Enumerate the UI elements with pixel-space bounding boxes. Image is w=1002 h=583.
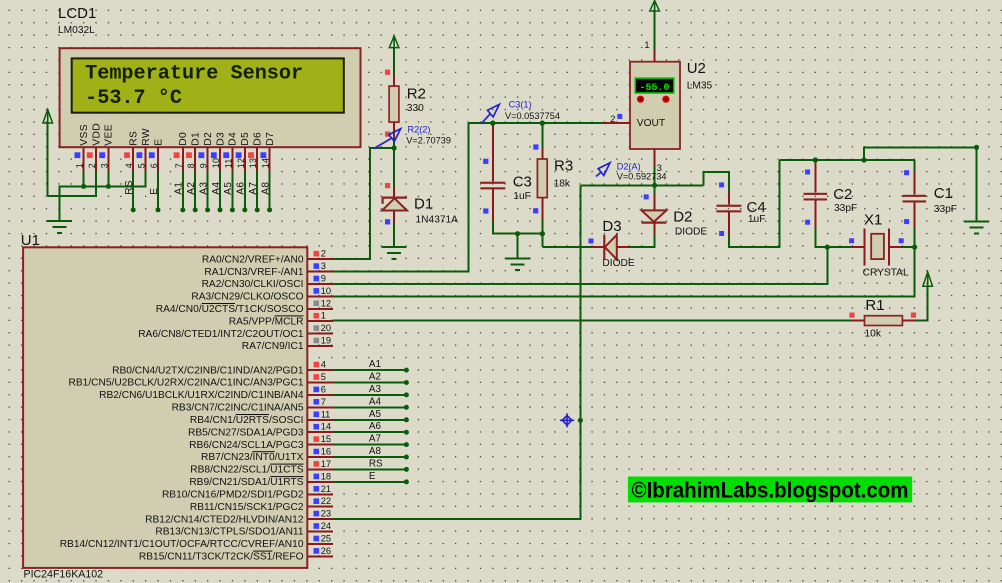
voltage probe R2(2) xyxy=(374,138,392,149)
U2 knob right xyxy=(662,96,669,103)
svg-text:Temperature Sensor: Temperature Sensor xyxy=(85,63,303,86)
svg-text:D4: D4 xyxy=(228,132,239,146)
wire U1 net A7 xyxy=(333,444,407,446)
svg-text:13: 13 xyxy=(248,158,258,168)
wire VDD to LCD pin 2 xyxy=(48,172,96,196)
svg-text:D1: D1 xyxy=(191,132,202,146)
wire LCD net A4 xyxy=(219,172,221,210)
svg-text:3: 3 xyxy=(99,163,109,168)
svg-text:-55.0: -55.0 xyxy=(639,83,669,94)
svg-text:15: 15 xyxy=(321,434,331,444)
svg-text:25: 25 xyxy=(321,534,331,544)
svg-text:6: 6 xyxy=(321,384,326,394)
svg-text:©IbrahimLabs.blogspot.com: ©IbrahimLabs.blogspot.com xyxy=(632,477,909,502)
svg-text:18: 18 xyxy=(321,471,331,481)
svg-text:E: E xyxy=(149,188,160,195)
wire LCD net A8 xyxy=(269,172,271,210)
voltage probe C3(1) xyxy=(482,114,491,124)
svg-text:1: 1 xyxy=(321,311,326,321)
svg-text:RW: RW xyxy=(141,128,152,146)
LCD screen xyxy=(72,58,344,112)
wire LCD net A3 xyxy=(207,172,209,210)
svg-text:RB1/CN5/U2BCLK/U2RX/C2INA/C1IN: RB1/CN5/U2BCLK/U2RX/C2INA/C1INC/AN3/PGC1 xyxy=(69,378,304,389)
wire C3 bottom xyxy=(493,221,543,234)
svg-text:26: 26 xyxy=(321,546,331,556)
svg-text:-53.7 °C: -53.7 °C xyxy=(85,87,182,110)
svg-text:V=0.592734: V=0.592734 xyxy=(617,171,667,181)
wire rail to ground xyxy=(864,147,977,221)
microcontroller U1 body xyxy=(23,247,307,568)
svg-text:11: 11 xyxy=(223,158,233,168)
svg-text:1: 1 xyxy=(75,163,85,168)
svg-text:4: 4 xyxy=(321,360,326,370)
wire U1 net A4 xyxy=(333,406,407,408)
svg-text:RA0/CN2/VREF+/AN0: RA0/CN2/VREF+/AN0 xyxy=(202,254,304,265)
svg-text:10: 10 xyxy=(321,286,331,296)
svg-text:8: 8 xyxy=(186,163,196,168)
svg-text:RS: RS xyxy=(129,131,140,146)
wire U1 pin1 MCLR to R1 xyxy=(333,320,852,322)
svg-text:LCD1: LCD1 xyxy=(58,5,96,22)
svg-text:RA5/VPP/MCLR: RA5/VPP/MCLR xyxy=(229,316,304,327)
svg-text:A4: A4 xyxy=(211,182,222,195)
svg-text:CRYSTAL: CRYSTAL xyxy=(863,267,909,278)
wire U1 net A1 xyxy=(333,369,407,371)
wire U1 net RS xyxy=(333,468,407,470)
svg-text:5: 5 xyxy=(321,372,326,382)
junction R3 top xyxy=(540,121,545,126)
wire U1 pin10 to crystal right xyxy=(333,247,915,296)
wire U1 net A5 xyxy=(333,419,407,421)
diode D3 xyxy=(617,246,630,248)
svg-text:1N4371A: 1N4371A xyxy=(416,215,459,226)
wire net to C4 top xyxy=(704,172,729,192)
resistor R3 xyxy=(541,123,543,147)
wire LCD net E xyxy=(157,172,159,210)
temperature sensor U2 body xyxy=(630,62,680,149)
svg-text:RB12/CN14/CTED2/HLVDIN/AN12: RB12/CN14/CTED2/HLVDIN/AN12 xyxy=(145,514,304,525)
svg-text:A2: A2 xyxy=(369,372,381,383)
wire U1 pin23 to D2 anode net xyxy=(333,185,581,519)
svg-text:24: 24 xyxy=(321,521,331,531)
svg-text:1uF: 1uF xyxy=(748,214,766,225)
svg-text:RB15/CN11/T3CK/T2CK/SS1/REFO: RB15/CN11/T3CK/T2CK/SS1/REFO xyxy=(139,552,304,563)
svg-text:RB14/CN12/INT1/C1OUT/OCFA/RTCC: RB14/CN12/INT1/C1OUT/OCFA/RTCC/CVREF/AN1… xyxy=(60,539,304,550)
svg-text:VEE: VEE xyxy=(104,124,115,146)
capacitor C1 xyxy=(913,160,915,171)
crystal X1 xyxy=(827,246,852,248)
svg-text:RB11/CN15/SCK1/PGC2: RB11/CN15/SCK1/PGC2 xyxy=(190,502,304,513)
svg-text:11: 11 xyxy=(321,409,331,419)
svg-text:A5: A5 xyxy=(223,182,234,195)
diode D2 xyxy=(654,185,656,193)
wire D3 cathode to R3/C3 net xyxy=(542,246,591,248)
wire ground rail xyxy=(779,159,914,161)
svg-text:12: 12 xyxy=(236,158,246,168)
wire D2 anode net xyxy=(580,184,703,186)
svg-text:9: 9 xyxy=(321,274,326,284)
svg-text:D3: D3 xyxy=(602,218,621,235)
svg-text:22: 22 xyxy=(321,496,331,506)
U2 knob left xyxy=(637,96,644,103)
wire LCD net A1 xyxy=(182,172,184,210)
wire U1 net A3 xyxy=(333,394,407,396)
svg-text:RA2/CN30/CLKI/OSCI: RA2/CN30/CLKI/OSCI xyxy=(202,279,304,290)
svg-text:330: 330 xyxy=(407,103,424,114)
svg-text:D2: D2 xyxy=(203,132,214,146)
wire LCD net A6 xyxy=(244,172,246,210)
U2 pin1 stub xyxy=(654,49,656,61)
wire U1 pin9 to crystal left xyxy=(333,247,827,284)
origin marker xyxy=(560,413,574,427)
svg-text:R2: R2 xyxy=(407,86,426,103)
capacitor C3 xyxy=(492,123,494,181)
svg-text:X1: X1 xyxy=(864,211,882,228)
svg-text:DIODE: DIODE xyxy=(602,258,634,269)
svg-text:A8: A8 xyxy=(369,446,382,457)
wire LCD net A7 xyxy=(256,172,258,210)
wire D1 to ground xyxy=(393,223,395,247)
svg-text:A8: A8 xyxy=(260,182,271,195)
wire LCD pin3 to rail xyxy=(107,172,109,186)
svg-text:7: 7 xyxy=(321,397,326,407)
svg-text:12: 12 xyxy=(321,298,331,308)
svg-text:V=2.70739: V=2.70739 xyxy=(406,135,451,145)
svg-text:A7: A7 xyxy=(369,434,381,445)
svg-text:2: 2 xyxy=(87,163,97,168)
junction R3 bottom xyxy=(540,231,545,236)
svg-text:RB8/CN22/SCL1/U1CTS: RB8/CN22/SCL1/U1CTS xyxy=(190,465,303,476)
svg-text:DIODE: DIODE xyxy=(675,226,707,237)
svg-text:D6: D6 xyxy=(253,132,264,146)
svg-text:2: 2 xyxy=(610,114,615,124)
svg-text:C1: C1 xyxy=(934,185,953,202)
ground (D1) xyxy=(382,246,407,248)
svg-text:10k: 10k xyxy=(865,328,882,339)
wire R2 to D1 junction xyxy=(393,138,395,148)
wire LCD pin1 to rail xyxy=(83,172,85,186)
power arrow (R2) xyxy=(393,36,395,48)
svg-text:16: 16 xyxy=(321,447,331,457)
wire LCD net A5 xyxy=(231,172,233,210)
wire D2 cathode to D3 xyxy=(630,234,654,247)
svg-text:VSS: VSS xyxy=(79,124,90,146)
U2 pin3 stub xyxy=(654,149,656,167)
svg-text:C2: C2 xyxy=(833,186,852,203)
wire VSS/VEE rail xyxy=(60,172,146,221)
svg-text:RB7/CN23/INT0/U1TX: RB7/CN23/INT0/U1TX xyxy=(201,452,304,463)
svg-text:RB0/CN4/U2TX/C2INB/C1IND/AN2/P: RB0/CN4/U2TX/C2INB/C1IND/AN2/PGD1 xyxy=(112,365,304,376)
svg-text:RA3/CN29/CLKO/OSCO: RA3/CN29/CLKO/OSCO xyxy=(191,292,303,303)
resistor R1 xyxy=(852,320,865,322)
svg-text:A5: A5 xyxy=(369,409,382,420)
wire VOUT rail xyxy=(469,122,604,124)
svg-text:RA7/CN9/IC1: RA7/CN9/IC1 xyxy=(242,341,304,352)
junction C3 top xyxy=(490,121,495,126)
svg-text:A1: A1 xyxy=(369,359,382,370)
svg-text:RA1/CN3/VREF-/AN1: RA1/CN3/VREF-/AN1 xyxy=(204,267,303,278)
svg-text:D2(A): D2(A) xyxy=(617,162,641,172)
svg-text:D0: D0 xyxy=(178,132,189,146)
capacitor C4 xyxy=(728,192,730,204)
svg-text:14: 14 xyxy=(261,158,271,168)
svg-text:RB2/CN6/U1BCLK/U1RX/C2IND/C1IN: RB2/CN6/U1BCLK/U1RX/C2IND/C1INB/AN4 xyxy=(99,390,304,401)
svg-text:7: 7 xyxy=(174,163,184,168)
svg-text:10: 10 xyxy=(211,158,221,168)
svg-text:RB5/CN27/SDA1A/PGD3: RB5/CN27/SDA1A/PGD3 xyxy=(188,427,304,438)
svg-text:RS: RS xyxy=(124,180,135,195)
svg-text:A7: A7 xyxy=(248,182,259,195)
svg-text:RS: RS xyxy=(369,458,383,469)
svg-text:A1: A1 xyxy=(174,182,185,195)
voltage probe D2(A) xyxy=(596,172,601,176)
svg-text:1uF: 1uF xyxy=(513,191,531,202)
wire U1 net A6 xyxy=(333,431,407,433)
svg-text:LM35: LM35 xyxy=(687,81,713,92)
junction on pin23 riser xyxy=(578,418,583,423)
svg-text:A6: A6 xyxy=(236,182,247,195)
svg-text:9: 9 xyxy=(199,163,209,168)
wire U1 pin3 to C3 rail xyxy=(333,123,469,272)
wire U1 net E xyxy=(333,481,407,483)
svg-text:5: 5 xyxy=(137,163,147,168)
svg-text:4: 4 xyxy=(124,163,134,168)
wire U1 pin2 to R2/D1 junction xyxy=(333,148,394,259)
svg-text:A3: A3 xyxy=(369,384,382,395)
ground (C3) xyxy=(517,234,519,259)
svg-text:RB9/CN21/SDA1/U1RTS: RB9/CN21/SDA1/U1RTS xyxy=(189,477,303,488)
svg-text:V=0.0537754: V=0.0537754 xyxy=(505,111,560,121)
power VDD arrow (LCD) xyxy=(47,110,49,124)
watermark xyxy=(628,477,912,503)
svg-text:D2: D2 xyxy=(673,209,692,226)
svg-text:RA4/CN0/U2CTS/T1CK/SOSCO: RA4/CN0/U2CTS/T1CK/SOSCO xyxy=(156,304,304,315)
power arrow (R1) xyxy=(927,272,929,286)
svg-text:D3: D3 xyxy=(215,132,226,146)
svg-text:RB10/CN16/PMD2/SDI1/PGD2: RB10/CN16/PMD2/SDI1/PGD2 xyxy=(162,490,304,501)
svg-text:14: 14 xyxy=(321,422,331,432)
svg-text:RA6/CN8/CTED1/INT2/C2OUT/OC1: RA6/CN8/CTED1/INT2/C2OUT/OC1 xyxy=(138,329,304,340)
capacitor C2 xyxy=(814,160,816,193)
svg-text:2: 2 xyxy=(321,249,326,259)
ground (LCD VSS) xyxy=(47,220,72,222)
svg-text:D5: D5 xyxy=(240,132,251,146)
zener diode D1 xyxy=(393,187,395,197)
wire LCD net RS xyxy=(132,172,134,210)
svg-text:A2: A2 xyxy=(186,182,197,195)
svg-text:A6: A6 xyxy=(369,421,382,432)
svg-text:R2(2): R2(2) xyxy=(408,125,431,135)
svg-text:19: 19 xyxy=(321,336,331,346)
svg-text:21: 21 xyxy=(321,484,331,494)
svg-text:D7: D7 xyxy=(265,132,276,146)
wire U1 net A2 xyxy=(333,382,407,384)
svg-text:A4: A4 xyxy=(369,396,382,407)
svg-text:33pF: 33pF xyxy=(834,203,857,214)
svg-text:VOUT: VOUT xyxy=(637,118,665,129)
junction C2 top xyxy=(813,157,818,162)
power arrow (U2) xyxy=(654,1,656,12)
wire C4 bottom to gnd rail xyxy=(729,160,779,247)
svg-text:D1: D1 xyxy=(414,195,433,212)
wire U1 net A8 xyxy=(333,456,407,458)
svg-text:RB13/CN13/CTPLS/SDO1/AN11: RB13/CN13/CTPLS/SDO1/AN11 xyxy=(155,527,303,538)
svg-text:R3: R3 xyxy=(554,158,573,175)
U2 pin2 stub xyxy=(603,122,630,124)
svg-text:6: 6 xyxy=(149,163,159,168)
svg-text:RB3/CN7/C2INC/C1INA/AN5: RB3/CN7/C2INC/C1INA/AN5 xyxy=(172,403,304,414)
svg-text:VDD: VDD xyxy=(91,123,102,146)
svg-text:1: 1 xyxy=(644,40,649,50)
svg-text:R1: R1 xyxy=(865,297,884,314)
svg-text:C3: C3 xyxy=(513,174,532,191)
resistor R2 xyxy=(393,75,395,86)
svg-text:23: 23 xyxy=(321,509,331,519)
svg-text:PIC24F16KA102: PIC24F16KA102 xyxy=(24,568,104,580)
svg-text:33pF: 33pF xyxy=(934,204,957,215)
svg-text:U2: U2 xyxy=(687,60,706,77)
svg-text:E: E xyxy=(369,471,376,482)
wire C2 bottom xyxy=(815,228,827,247)
svg-text:A3: A3 xyxy=(198,182,209,195)
svg-text:RB6/CN24/SCL1A/PGC3: RB6/CN24/SCL1A/PGC3 xyxy=(189,440,304,451)
svg-text:C3(1): C3(1) xyxy=(509,100,532,110)
wire R1 to power xyxy=(915,286,928,320)
wire LCD net A2 xyxy=(194,172,196,210)
U2 display xyxy=(635,78,673,93)
svg-text:RB4/CN1/U2RTS/SOSCI: RB4/CN1/U2RTS/SOSCI xyxy=(190,415,304,426)
svg-text:3: 3 xyxy=(321,261,326,271)
LCD LCD1 body xyxy=(60,48,361,147)
svg-text:LM032L: LM032L xyxy=(58,25,95,36)
svg-text:17: 17 xyxy=(321,459,331,469)
svg-text:E: E xyxy=(153,139,164,146)
ground (crystal) xyxy=(964,221,989,223)
svg-text:18k: 18k xyxy=(554,178,571,189)
svg-text:20: 20 xyxy=(321,323,331,333)
wire C1 bottom xyxy=(914,228,916,247)
